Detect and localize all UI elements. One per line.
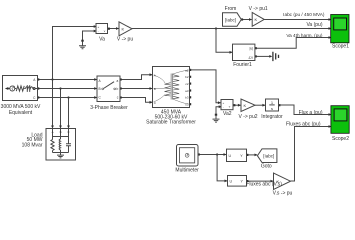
ground G2 <box>213 116 220 123</box>
scope Scope1 <box>331 15 349 43</box>
svg-text:A: A <box>154 73 156 77</box>
port square Va output <box>108 28 110 30</box>
Fourier1 block <box>233 44 255 60</box>
selector block Selector1 <box>227 149 247 161</box>
wire Integrator to Scope2 input 1 <box>279 105 332 115</box>
wire branch Va signal down to Fourier1 input <box>216 29 232 53</box>
arrowhead into transformer B <box>150 87 153 90</box>
svg-text:K: K <box>244 103 247 108</box>
wire Va signal gain to Scope1 input 2 <box>132 28 331 30</box>
port square From output <box>241 18 243 20</box>
svg-text:V -> pu1: V -> pu1 <box>249 6 268 12</box>
svg-text:Fourier1: Fourier1 <box>233 62 252 68</box>
wire Multimeter to Selector1 <box>198 154 226 156</box>
selector block Selector2 <box>228 176 247 187</box>
scope Scope2 <box>331 106 349 134</box>
svg-text:U: U <box>230 180 233 184</box>
arrowhead into load A <box>51 126 54 129</box>
svg-text:+: + <box>98 25 100 29</box>
svg-text:B: B <box>33 87 35 91</box>
svg-text:Equivalent: Equivalent <box>9 110 33 116</box>
svg-text:[Iabc]: [Iabc] <box>225 17 236 22</box>
wire Va2 minus to ground G2 <box>216 107 222 114</box>
junction node multimeter signal tap <box>216 153 218 155</box>
arrowhead into Selector1 <box>224 153 227 156</box>
svg-text:a2: a2 <box>185 68 189 72</box>
svg-text:Flux a (pu): Flux a (pu) <box>299 110 323 116</box>
wire gain V-pu2 to Integrator <box>255 104 265 106</box>
arrowhead into breaker C <box>94 96 97 99</box>
wire gain Vs-pu up to Scope2 input 2 <box>291 127 332 182</box>
arrowhead into load C <box>67 126 70 129</box>
arrowhead into breaker A <box>94 78 97 81</box>
wire Va2 output to gain V-pu2 <box>234 104 241 106</box>
arrowhead into Va plus <box>94 25 97 28</box>
svg-text:Fluxes abc (V.s): Fluxes abc (V.s) <box>246 181 282 187</box>
port square Fourier1 angle output <box>255 55 257 57</box>
gain V-pu1 <box>252 13 264 27</box>
wire transformer a2 to Va2 plus <box>190 70 221 103</box>
arrowhead into Fourier1 input <box>230 51 233 54</box>
wire phase B source to breaker <box>38 88 97 90</box>
port square Integrator output <box>278 104 280 106</box>
port square transformer a3 <box>189 89 191 91</box>
wire branch Multimeter down to Selector2 <box>217 155 227 181</box>
svg-text:K: K <box>255 17 258 22</box>
From tag [Iabc] <box>223 13 242 26</box>
svg-text:V -> pu: V -> pu <box>117 37 133 43</box>
port square Fourier1 magnitude output <box>255 47 257 49</box>
arrowhead into transformer C <box>150 101 153 104</box>
port square source A <box>37 78 39 80</box>
wire breaker c to transformer C with jog <box>120 98 152 103</box>
svg-text:[Iabc]: [Iabc] <box>263 153 274 158</box>
svg-text:C: C <box>67 130 69 134</box>
svg-text:Scope2: Scope2 <box>332 136 349 142</box>
svg-text:B: B <box>154 87 156 91</box>
port square breaker b <box>120 87 122 89</box>
arrowhead into Va2 plus <box>218 101 221 104</box>
arrowhead into Scope1 input 2 <box>329 27 332 30</box>
svg-text:b2: b2 <box>185 75 189 79</box>
svg-text:+: + <box>223 101 225 105</box>
arrowhead into gain Vs-pu <box>271 180 274 183</box>
port square breaker a <box>120 78 122 80</box>
wire phase C source to breaker <box>38 97 97 99</box>
arrowhead into Goto tag <box>255 154 258 157</box>
junction node Va signal tap <box>215 27 217 29</box>
terminator T1 <box>273 52 279 61</box>
wire breaker b to transformer B with jog <box>120 88 152 90</box>
svg-text:U: U <box>229 154 232 158</box>
svg-text:B: B <box>99 87 101 91</box>
arrowhead into Scope1 input 1 <box>329 18 332 21</box>
svg-text:a: a <box>117 79 119 83</box>
svg-text:A: A <box>52 130 54 134</box>
port square Selector1 output <box>246 154 248 156</box>
svg-text:Va 4th harm. (pu): Va 4th harm. (pu) <box>286 33 323 38</box>
port square Selector2 output <box>246 180 248 182</box>
voltage measurement Va <box>96 24 108 34</box>
arrowhead into gain V-pu1 <box>249 18 252 21</box>
svg-text:Goto: Goto <box>261 164 272 170</box>
svg-text:K: K <box>122 26 125 31</box>
arrowhead into Va2 minus <box>219 105 222 108</box>
junction node phase C tap <box>67 96 69 98</box>
wire From tag to gain V-pu1 <box>242 19 252 21</box>
wire Fourier1 angle to terminator <box>255 55 270 57</box>
svg-text:Va (pu): Va (pu) <box>306 22 322 28</box>
wire gain V-pu1 to Scope1 input 1 <box>264 19 331 21</box>
port square breaker c <box>120 96 122 98</box>
port square Va2 output <box>233 104 235 106</box>
svg-text:B: B <box>60 130 62 134</box>
svg-text:∠u: ∠u <box>248 56 253 60</box>
arrowhead into Scope1 input 3 <box>329 36 332 39</box>
gain Vs-pu <box>274 173 291 190</box>
svg-text:a3: a3 <box>185 89 189 93</box>
voltage measurement Va2 <box>221 100 233 110</box>
svg-text:108 Mvar: 108 Mvar <box>22 142 43 148</box>
gain V-pu2 <box>241 99 255 112</box>
arrowhead into Va minus <box>94 30 97 33</box>
port square source C <box>37 96 39 98</box>
svg-text:Multimeter: Multimeter <box>175 168 199 174</box>
Goto tag [Iabc] <box>257 149 277 163</box>
port square ground G1 <box>81 40 83 42</box>
arrowhead into Selector2 <box>225 180 228 183</box>
svg-text:V -> pu2: V -> pu2 <box>238 114 257 120</box>
port square transformer a2 <box>189 69 191 71</box>
integrator block 1/s <box>266 99 279 111</box>
junction node phase A tap <box>51 78 53 80</box>
svg-text:c2: c2 <box>185 82 189 86</box>
arrowhead into load B <box>59 126 62 129</box>
wire drop phase C to Load <box>68 98 70 128</box>
arrowhead into gain V-pu <box>116 27 119 30</box>
port square transformer b2 <box>189 76 191 78</box>
wire phase A source to breaker <box>38 79 97 81</box>
multimeter block <box>177 145 199 167</box>
port square transformer c3 <box>189 103 191 105</box>
svg-text:Saturable Transformer: Saturable Transformer <box>146 120 196 126</box>
wire Fourier1 magnitude to Scope1 input 3 <box>255 38 331 49</box>
arrowhead into Integrator <box>262 104 265 107</box>
svg-text:Integrator: Integrator <box>261 114 283 120</box>
wire drop phase B to Load <box>60 89 62 128</box>
arrowhead into transformer A <box>150 73 153 76</box>
arrowhead into Scope2 input 1 <box>329 113 332 116</box>
wire riser phase A to Va and down to Load <box>53 27 97 128</box>
svg-text:V.s -> pu: V.s -> pu <box>273 190 293 196</box>
wire Va minus to ground G1 <box>83 31 97 40</box>
svg-text:Fluxes abc (pu): Fluxes abc (pu) <box>286 122 321 128</box>
svg-text:3-Phase Breaker: 3-Phase Breaker <box>90 105 128 111</box>
port square source B <box>37 87 39 89</box>
port square transformer b3 <box>189 96 191 98</box>
svg-text:Iabc (pu / 450 MVA): Iabc (pu / 450 MVA) <box>283 12 325 17</box>
arrowhead into breaker B <box>94 87 97 90</box>
svg-text:|u|: |u| <box>249 47 253 51</box>
svg-text:b3: b3 <box>185 96 189 100</box>
wire Va output to gain V-pu <box>108 28 119 30</box>
ground G1 <box>79 42 86 49</box>
svg-text:Va2: Va2 <box>223 111 232 117</box>
svg-text:c3: c3 <box>185 103 189 107</box>
arrowhead into gain V-pu2 <box>238 104 241 107</box>
source block 3000 MVA 500 kV Equivalent <box>3 76 38 101</box>
gain V-pu <box>119 22 132 36</box>
svg-text:From: From <box>225 6 237 12</box>
arrowhead into terminator <box>269 55 272 58</box>
wire Selector2 to gain Vs-pu <box>247 180 274 182</box>
svg-text:Scope1: Scope1 <box>332 43 349 49</box>
wire breaker a to transformer A with jog <box>120 75 152 80</box>
breaker block 3-Phase Breaker <box>97 76 120 102</box>
transformer block 450 MVA Saturable Transformer <box>153 67 190 108</box>
port square transformer c2 <box>189 83 191 85</box>
junction node phase B tap <box>59 87 61 89</box>
arrowhead into Scope2 input 2 <box>329 125 332 128</box>
wire Selector1 to Goto tag <box>247 154 258 156</box>
svg-text:-: - <box>98 30 99 34</box>
svg-text:b: b <box>117 87 119 91</box>
port square Multimeter output <box>198 153 200 155</box>
load block 50 MW 108 Mvar <box>46 129 76 161</box>
svg-text:Va: Va <box>99 36 105 42</box>
svg-text:-: - <box>223 106 224 110</box>
svg-text:s: s <box>271 106 273 111</box>
port square ground G2 <box>215 114 217 116</box>
